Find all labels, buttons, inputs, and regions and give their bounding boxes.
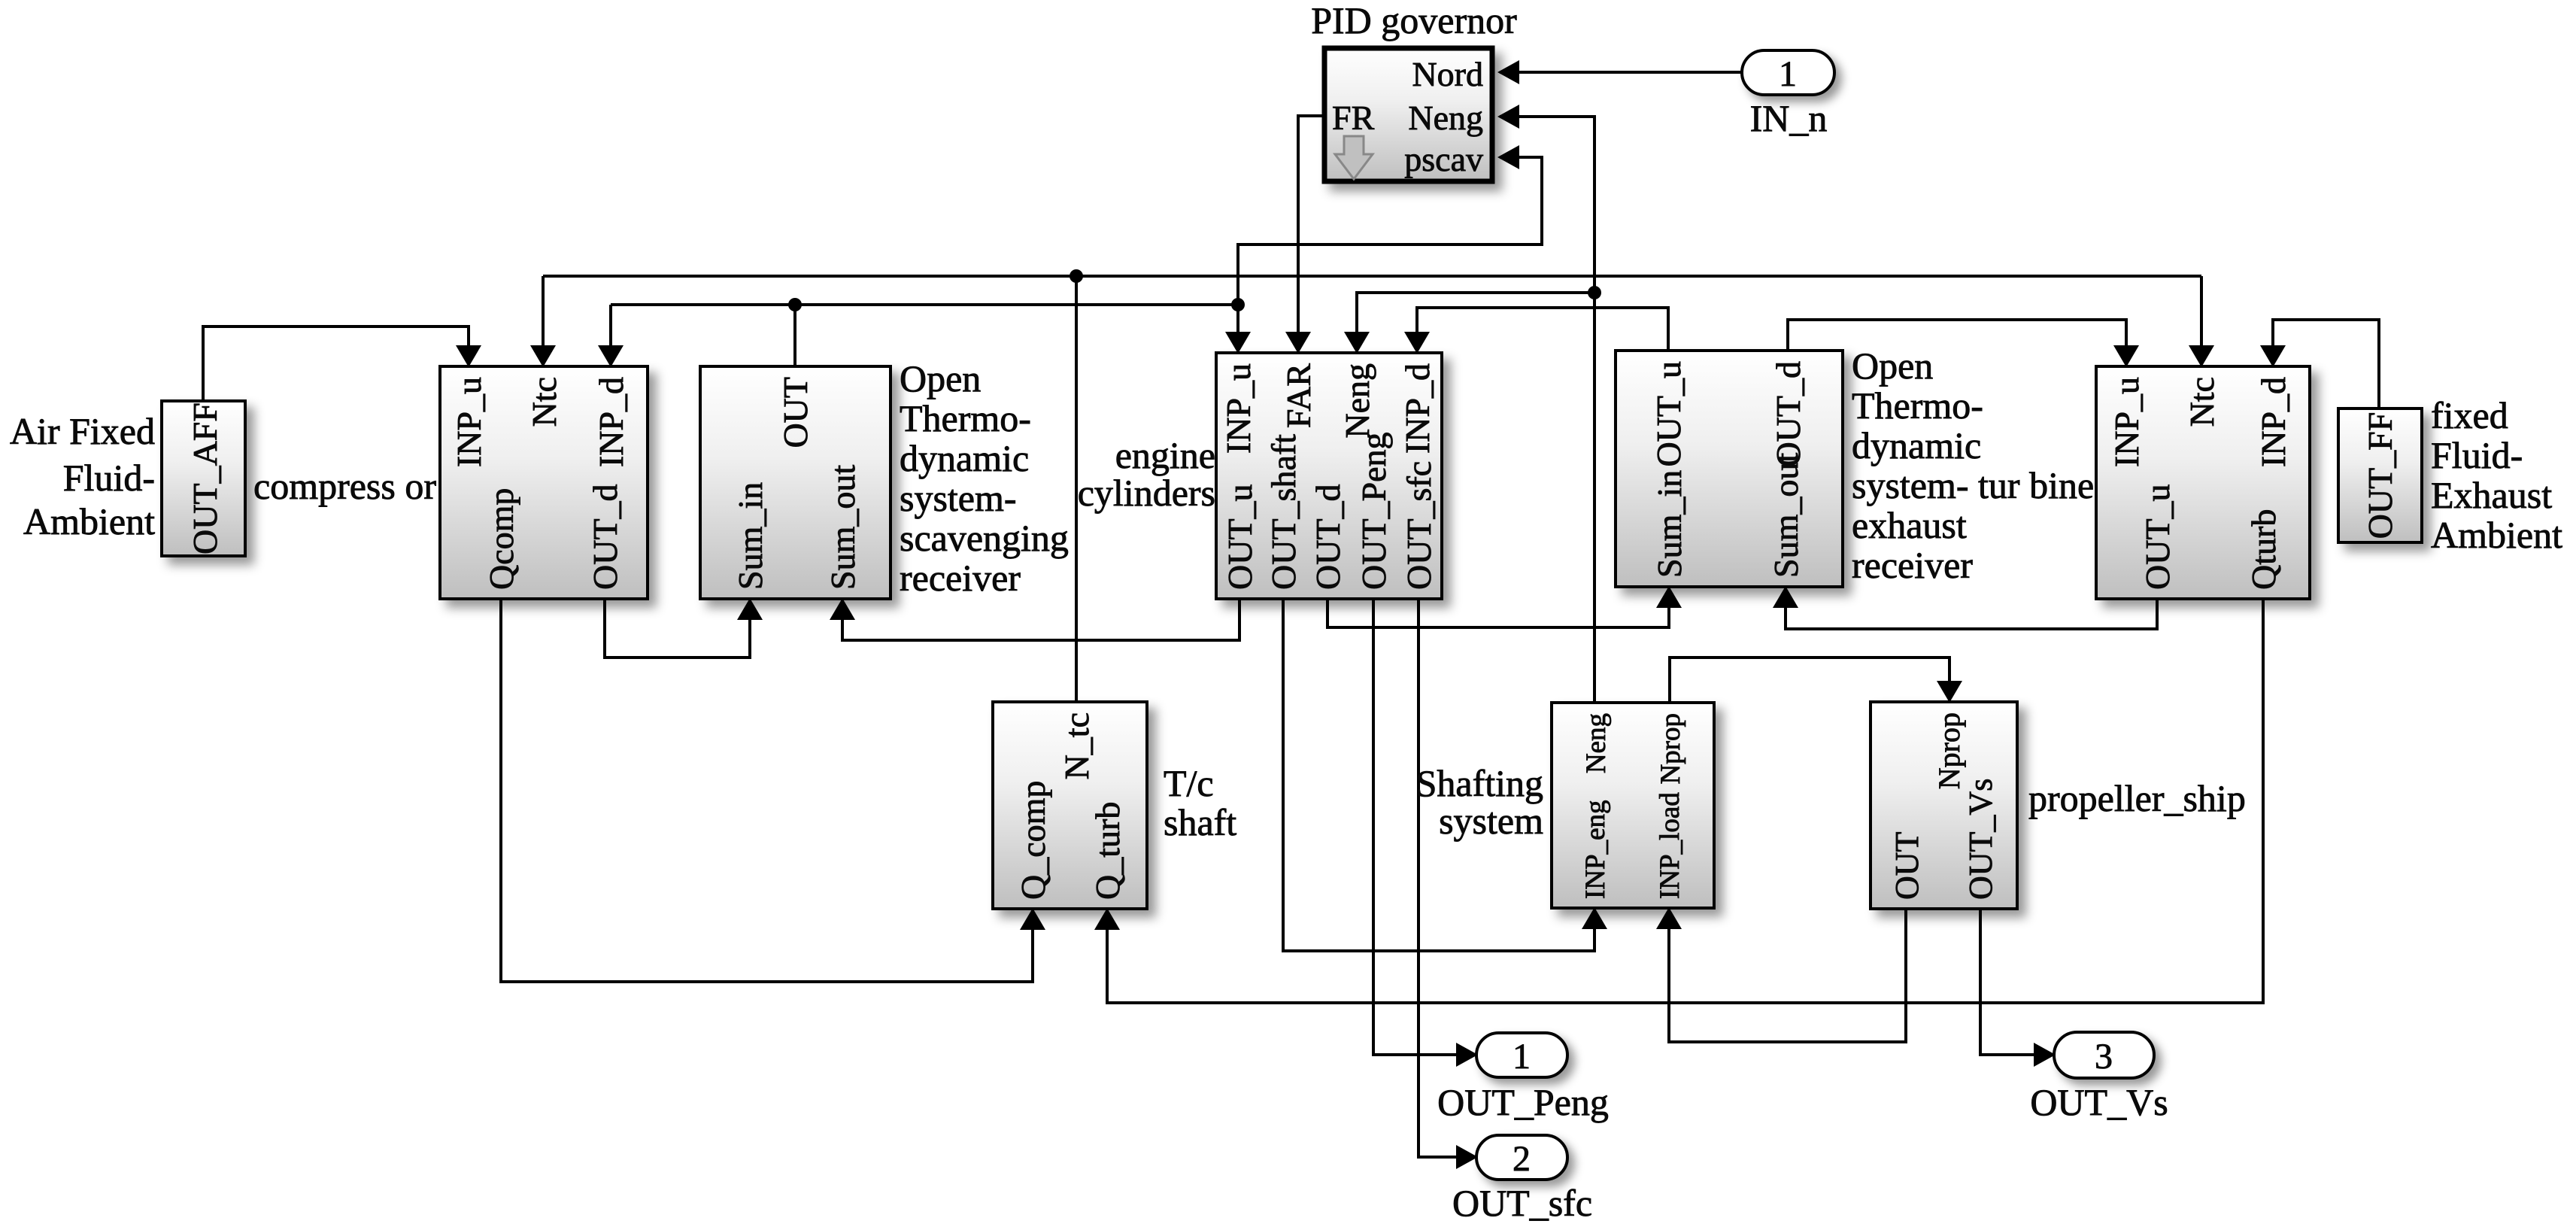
svg-text:Open: Open	[900, 357, 981, 399]
svg-text:system: system	[1439, 800, 1543, 842]
svg-text:Nord: Nord	[1412, 55, 1483, 93]
svg-text:N_tc: N_tc	[1057, 712, 1096, 779]
PID governor block	[1324, 48, 1492, 181]
svg-text:OUT_d: OUT_d	[1309, 484, 1347, 590]
output port 3 OUT_Vs	[2054, 1032, 2154, 1078]
svg-text:cylinders: cylinders	[1078, 472, 1215, 514]
svg-text:INP_d: INP_d	[1398, 363, 1437, 454]
block scavenging receiver	[700, 366, 891, 599]
svg-text:receiver: receiver	[900, 557, 1021, 599]
svg-text:Ntc: Ntc	[525, 377, 563, 427]
svg-text:Neng: Neng	[1338, 363, 1376, 439]
svg-text:2: 2	[1513, 1139, 1531, 1179]
svg-text:Q_turb: Q_turb	[1088, 802, 1127, 900]
svg-text:OUT_Vs: OUT_Vs	[2030, 1081, 2168, 1123]
svg-text:OUT_shaft: OUT_shaft	[1264, 434, 1303, 590]
wire turbine OUT_u to exhaust Sum_out	[1786, 599, 2157, 629]
wire N_tc bus: T/c shaft up, left to compressor Ntc, right to turbine Ntc	[543, 275, 2201, 278]
svg-text:receiver: receiver	[1852, 544, 1973, 586]
wire OUT_AFF to compressor INP_u	[203, 326, 469, 401]
wire engine OUT_sfc to port 2	[1418, 599, 1456, 1157]
svg-text:INP_u: INP_u	[450, 377, 488, 467]
block propeller_ship	[1871, 702, 2017, 909]
svg-text:OUT: OUT	[1889, 831, 1925, 900]
wire Neng net: PID Neng right, down to junction, down to Shafting Neng, left branch to engine Neng	[1500, 117, 1594, 703]
svg-text:OUT_Peng: OUT_Peng	[1437, 1081, 1609, 1123]
svg-text:Sum_out: Sum_out	[1767, 453, 1805, 578]
wire engine OUT_u to scavenging Sum_out	[842, 599, 1239, 640]
input port 1 IN_n	[1742, 50, 1834, 95]
svg-text:Air Fixed: Air Fixed	[10, 410, 155, 452]
svg-text:Ntc: Ntc	[2183, 377, 2221, 427]
svg-text:Nprop: Nprop	[1932, 712, 1966, 789]
svg-text:OUT_FF: OUT_FF	[2361, 412, 2399, 539]
wire IN_n to PID Nord	[1500, 71, 1742, 74]
wire turbine Qturb to T/c Q_turb	[1107, 599, 2263, 1003]
svg-text:INP_u: INP_u	[1219, 363, 1258, 454]
svg-text:T/c: T/c	[1164, 762, 1214, 804]
svg-text:Qturb: Qturb	[2244, 509, 2283, 590]
svg-text:PID governor: PID governor	[1311, 0, 1517, 41]
svg-text:INP_u: INP_u	[2107, 377, 2146, 467]
svg-text:FR: FR	[1332, 99, 1375, 137]
svg-text:propeller_ship: propeller_ship	[2028, 777, 2246, 819]
svg-text:Neng: Neng	[1408, 99, 1483, 137]
output port 1 OUT_Peng	[1476, 1033, 1567, 1077]
svg-text:INP_eng: INP_eng	[1580, 800, 1611, 899]
svg-text:Open: Open	[1852, 345, 1933, 387]
PID grey down-arrow icon	[1335, 136, 1373, 179]
svg-text:OUT_Peng: OUT_Peng	[1355, 432, 1393, 590]
svg-text:Neng: Neng	[1581, 713, 1612, 773]
block Shafting system	[1552, 703, 1714, 908]
wire scavenging OUT bus to compressor INP_d and engine INP_u	[611, 303, 1238, 306]
svg-text:Sum_in: Sum_in	[731, 482, 769, 590]
svg-text:OUT: OUT	[776, 377, 815, 448]
svg-text:compress or: compress or	[253, 465, 436, 507]
svg-text:FAR: FAR	[1279, 363, 1318, 428]
svg-text:OUT_d: OUT_d	[586, 484, 624, 590]
node junction Neng	[1588, 286, 1601, 299]
svg-text:Shafting: Shafting	[1416, 762, 1543, 804]
node junction INP_u engine	[1231, 298, 1245, 311]
svg-text:INP_load: INP_load	[1655, 792, 1685, 899]
svg-text:INP_d: INP_d	[592, 377, 630, 467]
svg-text:Thermo-: Thermo-	[900, 397, 1031, 439]
svg-text:1: 1	[1779, 54, 1797, 94]
block OUT_FF (fixed Fluid-Exhaust Ambient)	[2338, 408, 2422, 542]
svg-text:3: 3	[2095, 1037, 2113, 1077]
block T/c shaft	[993, 702, 1147, 909]
svg-text:engine: engine	[1115, 434, 1215, 476]
svg-text:OUT_sfc: OUT_sfc	[1400, 461, 1438, 590]
block compressor	[440, 366, 648, 599]
svg-text:fixed: fixed	[2431, 394, 2508, 436]
svg-text:scavenging: scavenging	[900, 517, 1069, 559]
wire exhaust OUT_d to turbine INP_u	[1788, 320, 2126, 351]
svg-text:OUT_Vs: OUT_Vs	[1962, 779, 1999, 900]
svg-text:Qcomp: Qcomp	[482, 488, 520, 590]
svg-text:OUT_u: OUT_u	[1221, 484, 1259, 590]
wire OUT_FF to turbine INP_d	[2273, 320, 2379, 408]
svg-text:dynamic: dynamic	[1852, 424, 1981, 466]
svg-text:Sum_in: Sum_in	[1650, 470, 1689, 578]
wire compressor Qcomp to T/c Q_comp	[501, 599, 1033, 982]
svg-text:OUT_sfc: OUT_sfc	[1452, 1182, 1592, 1224]
svg-text:INP_d: INP_d	[2254, 377, 2292, 467]
wire Shafting Nprop to propeller Nprop	[1670, 658, 1949, 703]
wire propeller OUT to Shafting INP_load	[1669, 909, 1906, 1042]
svg-text:dynamic: dynamic	[900, 437, 1029, 479]
wire engine OUT_Peng to port 1	[1373, 599, 1456, 1055]
svg-text:system-: system-	[900, 477, 1017, 519]
svg-text:exhaust: exhaust	[1852, 504, 1967, 546]
wire exhaust OUT_u to engine INP_d	[1417, 308, 1668, 351]
svg-text:system- tur bine: system- tur bine	[1852, 464, 2094, 506]
svg-text:pscav: pscav	[1404, 140, 1483, 178]
node junction scav OUT	[788, 298, 802, 311]
svg-text:IN_n: IN_n	[1750, 97, 1828, 139]
wire pscav net: PID pscav right, down, left, down to junction above engine INP_u	[1238, 157, 1542, 332]
svg-text:1: 1	[1513, 1037, 1531, 1077]
svg-text:Fluid-: Fluid-	[63, 457, 155, 499]
svg-text:shaft: shaft	[1164, 801, 1236, 843]
svg-text:Sum_out: Sum_out	[824, 465, 862, 590]
block turbine	[2096, 366, 2310, 599]
node junction N_tc	[1070, 269, 1083, 283]
svg-text:Exhaust: Exhaust	[2431, 474, 2552, 516]
svg-text:Nprop: Nprop	[1655, 713, 1686, 785]
wire engine OUT_shaft to Shafting INP_eng	[1283, 599, 1594, 951]
svg-text:Q_comp: Q_comp	[1014, 781, 1052, 900]
wire compressor OUT_d to scavenging Sum_in	[605, 599, 750, 658]
svg-text:OUT_AFF: OUT_AFF	[186, 402, 224, 554]
svg-text:Ambient: Ambient	[2431, 514, 2562, 556]
svg-text:OUT_u: OUT_u	[1649, 361, 1688, 467]
output port 2 OUT_sfc	[1476, 1135, 1567, 1180]
block engine cylinders	[1216, 353, 1442, 599]
wire propeller OUT_Vs to port 3	[1980, 909, 2034, 1055]
wire engine OUT_d to exhaust Sum_in	[1327, 599, 1669, 627]
svg-text:OUT_d: OUT_d	[1769, 361, 1807, 467]
block OUT_AFF (Air Fixed Fluid-Ambient source)	[162, 401, 245, 556]
svg-text:Fluid-: Fluid-	[2431, 434, 2523, 476]
svg-text:OUT_u: OUT_u	[2138, 484, 2177, 590]
svg-text:Ambient: Ambient	[23, 500, 155, 542]
wire FR to engine FAR	[1298, 116, 1326, 332]
block exhaust receiver	[1616, 351, 1843, 587]
svg-text:Thermo-: Thermo-	[1852, 384, 1983, 427]
